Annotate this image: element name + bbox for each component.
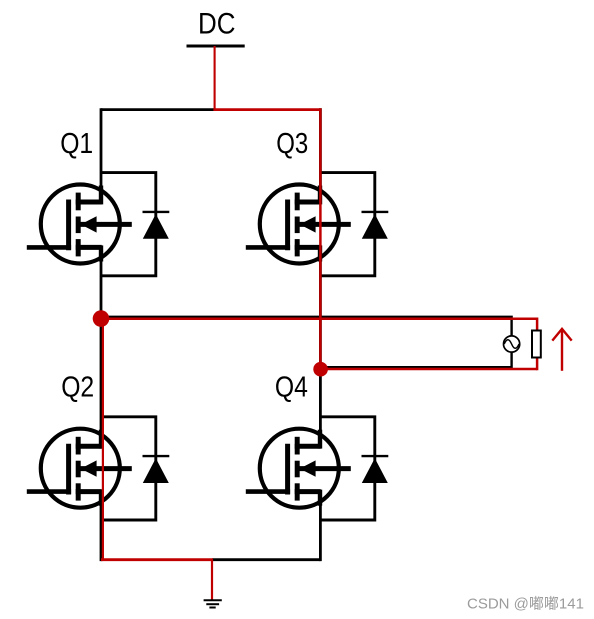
MOSFET Q2 bbox=[27, 429, 132, 508]
MOSFET Q3 bbox=[246, 185, 351, 264]
body diode D2 bbox=[100, 417, 169, 520]
wire red resistor leg bbox=[101, 319, 537, 371]
svg-text:CSDN @嘟嘟141: CSDN @嘟嘟141 bbox=[467, 596, 584, 613]
wire right leg upper (Q3 drain) bbox=[319, 108, 322, 202]
wire red bottom rail left bbox=[101, 558, 213, 561]
DC supply bar bbox=[187, 45, 245, 48]
wire right leg middle (Q3 source to Q4 drain) bbox=[319, 247, 322, 446]
MOSFET Q4 bbox=[246, 429, 351, 508]
wire red top rail right bbox=[213, 108, 320, 111]
wire right leg lower (Q4 source) bbox=[319, 491, 322, 561]
wire red through Q2 bbox=[102, 319, 104, 560]
svg-text:DC: DC bbox=[198, 8, 236, 41]
node B junction dot bbox=[313, 362, 328, 377]
resistor load R1 bbox=[532, 331, 541, 358]
wire left leg upper (Q1 drain) bbox=[100, 108, 103, 202]
current arrow bbox=[552, 329, 571, 371]
wire red through Q3 bbox=[319, 108, 322, 369]
MOSFET Q1 bbox=[27, 185, 132, 264]
svg-text:Q1: Q1 bbox=[60, 128, 93, 160]
wire left leg middle (Q1 source to Q2 drain) bbox=[100, 247, 103, 446]
wire output bottom black (AC source to node B) bbox=[321, 352, 512, 367]
wire output top black (node A to AC source) bbox=[101, 317, 512, 336]
svg-text:Q2: Q2 bbox=[61, 371, 94, 403]
wire bottom rail black right bbox=[212, 558, 320, 561]
ground bbox=[204, 600, 222, 607]
svg-text:Q3: Q3 bbox=[276, 128, 308, 160]
AC source V1 bbox=[504, 336, 520, 352]
wire red output bottom (node B to resistor) bbox=[321, 368, 537, 371]
wire red DC drop bbox=[214, 46, 216, 110]
body diode D1 bbox=[100, 173, 169, 276]
body diode D4 bbox=[319, 417, 388, 520]
svg-text:Q4: Q4 bbox=[275, 371, 308, 403]
wire red ground stem bbox=[211, 560, 213, 601]
wire left leg lower (Q2 source) bbox=[100, 491, 103, 561]
wire top rail black left bbox=[101, 108, 216, 111]
body diode D3 bbox=[319, 173, 388, 276]
node A junction dot bbox=[93, 310, 110, 327]
